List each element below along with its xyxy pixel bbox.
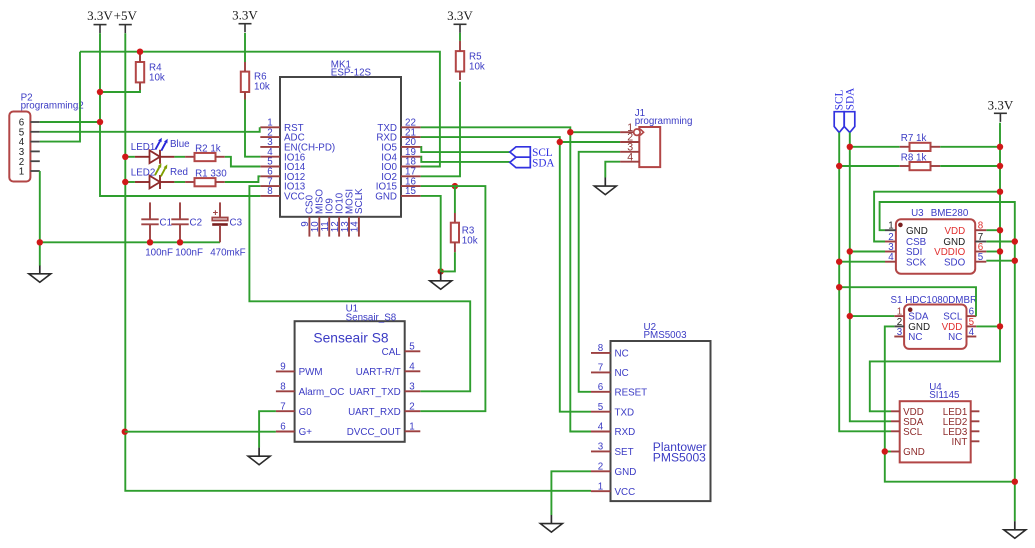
svg-text:3: 3 xyxy=(409,382,415,393)
svg-text:NC: NC xyxy=(908,332,922,343)
svg-text:3.3V: 3.3V xyxy=(988,97,1014,112)
svg-text:INT: INT xyxy=(952,437,968,448)
svg-text:15: 15 xyxy=(405,186,416,197)
svg-text:VCC: VCC xyxy=(615,487,636,498)
svg-text:3: 3 xyxy=(598,442,604,453)
svg-text:SDA: SDA xyxy=(844,88,856,110)
svg-text:Blue: Blue xyxy=(170,139,190,150)
svg-text:4: 4 xyxy=(969,327,975,338)
svg-text:3.3V: 3.3V xyxy=(232,8,258,23)
svg-text:VDD: VDD xyxy=(945,226,966,237)
svg-text:4: 4 xyxy=(409,362,415,373)
svg-text:HDC1080DMBR: HDC1080DMBR xyxy=(905,295,977,306)
svg-text:GND: GND xyxy=(615,467,637,478)
svg-text:S1: S1 xyxy=(891,295,903,306)
svg-text:R7 1k: R7 1k xyxy=(901,133,927,144)
svg-text:LED1: LED1 xyxy=(131,142,156,153)
svg-text:1: 1 xyxy=(888,221,893,232)
svg-text:8: 8 xyxy=(598,343,604,354)
svg-text:10k: 10k xyxy=(462,235,478,246)
svg-text:8: 8 xyxy=(978,221,984,232)
svg-text:6: 6 xyxy=(280,422,286,433)
svg-text:10k: 10k xyxy=(149,73,165,84)
svg-text:TXD: TXD xyxy=(615,407,635,418)
svg-text:programming2: programming2 xyxy=(21,100,84,111)
svg-text:PWM: PWM xyxy=(299,367,323,378)
svg-text:C3: C3 xyxy=(230,218,243,229)
svg-text:4: 4 xyxy=(888,252,894,263)
svg-text:8: 8 xyxy=(280,382,286,393)
svg-text:470mkF: 470mkF xyxy=(210,248,245,259)
svg-text:NC: NC xyxy=(948,332,962,343)
svg-text:1: 1 xyxy=(19,167,24,178)
svg-text:C1: C1 xyxy=(160,218,173,229)
svg-text:1: 1 xyxy=(409,422,414,433)
svg-text:GND: GND xyxy=(375,192,397,203)
svg-text:Senseair S8: Senseair S8 xyxy=(313,330,388,345)
svg-text:Alarm_OC: Alarm_OC xyxy=(299,387,345,398)
svg-text:3: 3 xyxy=(897,327,903,338)
svg-text:10k: 10k xyxy=(254,82,270,93)
svg-text:GND: GND xyxy=(903,447,925,458)
svg-text:10k: 10k xyxy=(469,62,485,73)
svg-text:UART-R/T: UART-R/T xyxy=(356,367,401,378)
svg-text:U3: U3 xyxy=(911,208,924,219)
svg-text:NC: NC xyxy=(615,368,629,379)
svg-text:CAL: CAL xyxy=(382,347,402,358)
svg-text:RESET: RESET xyxy=(615,387,648,398)
svg-text:UART_TXD: UART_TXD xyxy=(349,387,401,398)
svg-text:UART_RXD: UART_RXD xyxy=(348,407,401,418)
svg-text:GND: GND xyxy=(906,226,928,237)
svg-text:Sensair_S8: Sensair_S8 xyxy=(346,312,397,323)
svg-text:2: 2 xyxy=(598,462,603,473)
svg-text:BME280: BME280 xyxy=(931,208,969,219)
svg-text:8: 8 xyxy=(267,186,273,197)
svg-text:SI1145: SI1145 xyxy=(929,390,960,401)
svg-text:ESP-12S: ESP-12S xyxy=(331,68,372,79)
svg-text:100nF: 100nF xyxy=(145,248,173,259)
svg-text:VCC: VCC xyxy=(284,192,305,203)
svg-text:4: 4 xyxy=(598,422,604,433)
svg-text:PMS5003: PMS5003 xyxy=(653,450,706,464)
svg-text:SCK: SCK xyxy=(906,257,927,268)
svg-text:7: 7 xyxy=(280,401,285,412)
svg-text:SCLK: SCLK xyxy=(354,188,365,214)
svg-text:3.3V: 3.3V xyxy=(447,8,473,23)
svg-text:G0: G0 xyxy=(299,407,313,418)
svg-text:7: 7 xyxy=(598,363,603,374)
svg-text:SDA: SDA xyxy=(532,157,554,169)
svg-text:NC: NC xyxy=(615,349,629,360)
svg-text:+5V: +5V xyxy=(114,8,138,23)
svg-text:DVCC_OUT: DVCC_OUT xyxy=(347,427,401,438)
svg-text:1: 1 xyxy=(598,481,603,492)
svg-text:5: 5 xyxy=(409,342,415,353)
svg-text:100nF: 100nF xyxy=(175,248,203,259)
svg-text:RXD: RXD xyxy=(615,427,636,438)
svg-text:5: 5 xyxy=(598,402,604,413)
svg-text:14: 14 xyxy=(350,221,361,232)
svg-text:C2: C2 xyxy=(190,218,203,229)
svg-text:LED2: LED2 xyxy=(131,167,156,178)
svg-text:SCL: SCL xyxy=(903,427,923,438)
svg-text:Red: Red xyxy=(170,167,188,178)
svg-text:G+: G+ xyxy=(299,427,313,438)
svg-text:3.3V: 3.3V xyxy=(87,8,113,23)
svg-text:6: 6 xyxy=(598,382,604,393)
svg-text:R8 1k: R8 1k xyxy=(901,152,927,163)
svg-text:9: 9 xyxy=(280,362,285,373)
svg-text:2: 2 xyxy=(409,401,414,412)
svg-text:R1 330: R1 330 xyxy=(195,168,227,179)
svg-text:5: 5 xyxy=(978,252,984,263)
svg-text:SET: SET xyxy=(615,447,634,458)
svg-text:programming: programming xyxy=(635,116,693,127)
svg-text:PMS5003: PMS5003 xyxy=(644,330,688,341)
svg-text:4: 4 xyxy=(627,151,633,163)
svg-text:SDO: SDO xyxy=(944,257,966,268)
svg-text:R2 1k: R2 1k xyxy=(195,144,221,155)
